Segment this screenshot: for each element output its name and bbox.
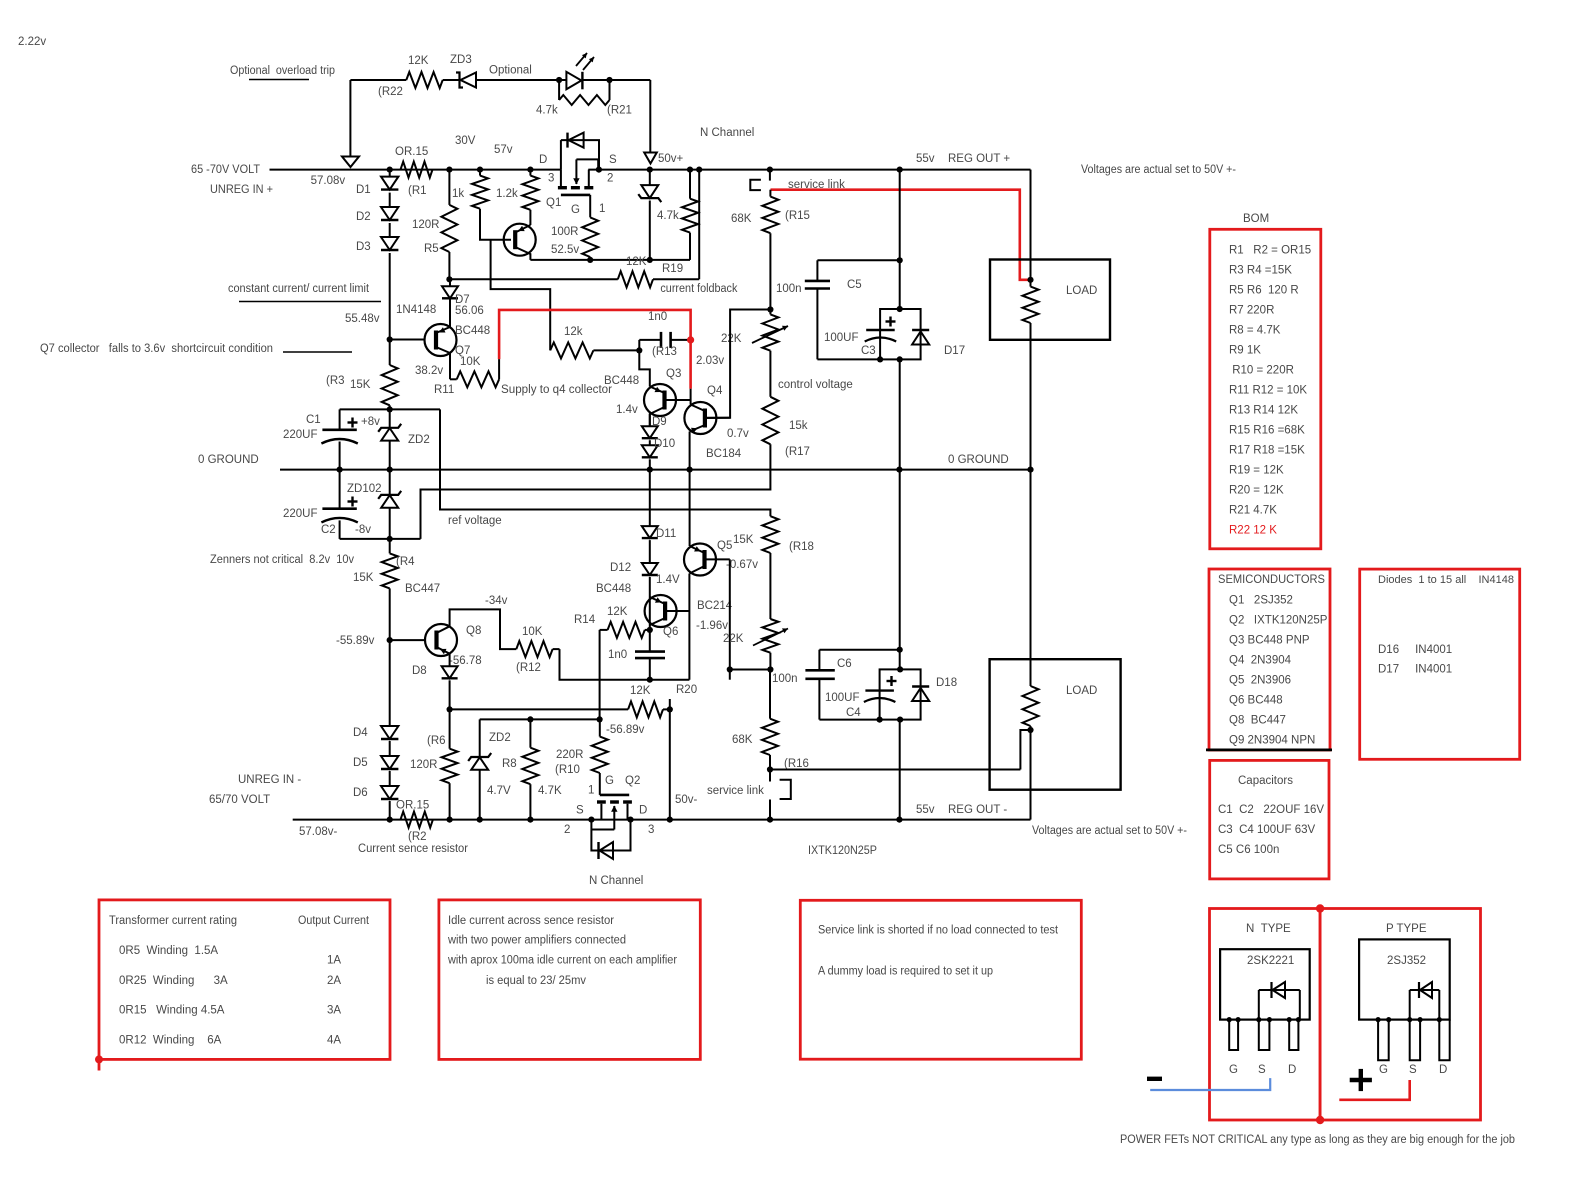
resistor R17 15k: [762, 397, 810, 458]
svg-text:12K: 12K: [607, 606, 628, 618]
resistor R11 10K: [450, 371, 499, 387]
wire rail source segment: [588, 169, 1030, 171]
svg-text:D6: D6: [353, 787, 368, 799]
resistor 1.2k: [496, 170, 538, 210]
svg-text:R20: R20: [676, 684, 697, 696]
svg-text:UNREG IN -: UNREG IN -: [238, 774, 301, 786]
capacitor C2 220UF: [283, 470, 358, 539]
svg-text:220UF: 220UF: [283, 508, 318, 520]
label UNREG IN +: [210, 184, 273, 196]
svg-text:R3 R4 =15K: R3 R4 =15K: [1229, 264, 1292, 276]
svg-text:Capacitors: Capacitors: [1238, 775, 1293, 787]
svg-text:C3: C3: [861, 345, 876, 357]
svg-text:15k: 15k: [789, 420, 808, 432]
wire Q8 collector to D8: [449, 654, 451, 667]
svg-text:R13 R14 12K: R13 R14 12K: [1229, 404, 1298, 416]
svg-text:constant current/ current limi: constant current/ current limit: [228, 283, 370, 295]
transistor Q2 IXTK120N25P: [591, 795, 631, 830]
svg-text:Diodes 1 to 15 all IN4148: Diodes 1 to 15 all IN4148: [1378, 574, 1514, 586]
resistor load upper: [1023, 170, 1039, 471]
load box upper: [990, 260, 1110, 340]
resistor 4.7k: [657, 170, 698, 260]
label -55.89v: [336, 635, 375, 647]
svg-text:(R21: (R21: [607, 105, 632, 117]
wire C5 bottom: [817, 356, 883, 362]
svg-text:(R22: (R22: [378, 86, 403, 98]
svg-text:Q8 BC447: Q8 BC447: [1229, 715, 1286, 727]
svg-text:Idle current across sence resi: Idle current across sence resistor: [448, 915, 614, 927]
svg-text:with two power amplifiers conn: with two power amplifiers connected: [447, 935, 626, 947]
svg-text:57.08v: 57.08v: [311, 175, 346, 187]
svg-text:Q4 2N3904: Q4 2N3904: [1229, 655, 1292, 667]
diode D2: [356, 207, 398, 223]
labels Q7: [415, 325, 490, 396]
svg-text:N TYPE: N TYPE: [1246, 923, 1291, 935]
svg-text:2.03v: 2.03v: [696, 355, 724, 367]
package 2SK2221: [1220, 949, 1310, 1019]
wire D8 to R20 line: [447, 680, 453, 712]
junction R4 Q8: [387, 637, 393, 643]
svg-text:Current sence resistor: Current sence resistor: [358, 843, 468, 855]
svg-text:Zenners not critical 8.2v 10: Zenners not critical 8.2v 10v: [210, 554, 354, 566]
svg-text:0.7v: 0.7v: [727, 428, 749, 440]
pins 2SK2221: [1227, 1017, 1301, 1076]
body diode of Q1: [561, 133, 599, 170]
svg-text:BC447: BC447: [405, 583, 440, 595]
wire overload trip top: [350, 79, 406, 81]
svg-text:R14: R14: [574, 614, 596, 626]
svg-text:R11 R12 = 10K: R11 R12 = 10K: [1229, 384, 1307, 396]
wire UNREG IN + rail left: [270, 169, 561, 171]
red junction dot R13: [687, 336, 694, 343]
P TYPE box: [1316, 904, 1481, 1124]
svg-text:0 GROUND: 0 GROUND: [198, 454, 259, 466]
svg-text:Output Current: Output Current: [298, 915, 370, 927]
svg-text:R21 4.7K: R21 4.7K: [1229, 504, 1277, 516]
svg-text:control voltage: control voltage: [778, 379, 853, 391]
wire pot to R17: [769, 351, 771, 397]
wire Q9 emitter bus: [530, 257, 690, 263]
wire R14 drop: [599, 630, 601, 720]
transistor Q1 2SJ352 pass FET: [558, 159, 598, 217]
potentiometer 22K upper: [721, 310, 788, 351]
svg-text:1: 1: [588, 785, 594, 797]
diode D5: [353, 741, 398, 769]
resistor load lower: [1023, 470, 1039, 819]
svg-text:2SJ352: 2SJ352: [1387, 955, 1426, 967]
wire red service link to load: [771, 190, 1034, 283]
wire C5 top: [817, 257, 902, 263]
svg-text:is equal to 23/ 25mv: is equal to 23/ 25mv: [486, 975, 586, 987]
resistor R10 220R: [555, 719, 608, 795]
resistor R18 15K: [733, 516, 814, 553]
transistor Q8 BC447: [390, 624, 457, 656]
svg-text:50v-: 50v-: [675, 794, 698, 806]
svg-text:+8v: +8v: [361, 416, 380, 428]
svg-text:100n: 100n: [772, 673, 798, 685]
svg-text:10K: 10K: [460, 356, 481, 368]
wire D6 to rail: [389, 801, 391, 820]
diode D10: [642, 438, 675, 457]
svg-text:Q3 BC448 PNP: Q3 BC448 PNP: [1229, 635, 1310, 647]
svg-text:ZD2: ZD2: [408, 434, 430, 446]
svg-text:Voltages are actual set to 50V: Voltages are actual set to 50V +-: [1032, 825, 1187, 837]
svg-text:D17: D17: [944, 345, 965, 357]
wire R20 to bottom rail: [669, 709, 671, 819]
capacitor C4 100UF with D18 box: [825, 666, 921, 722]
wire Q8 emitter to R12: [450, 609, 517, 649]
svg-text:4A: 4A: [327, 1034, 341, 1046]
svg-text:R7 220R: R7 220R: [1229, 304, 1274, 316]
svg-text:BOM: BOM: [1243, 213, 1269, 225]
svg-text:38.2v: 38.2v: [415, 365, 443, 377]
svg-text:BC214: BC214: [697, 600, 733, 612]
wire R16 node to load lower: [770, 769, 1020, 771]
svg-text:4.7K: 4.7K: [538, 785, 562, 797]
wire main positive column: [899, 170, 901, 470]
wire +8v node: [340, 406, 440, 428]
wire D12 to Q6: [650, 574, 680, 630]
label Zenners not critical: [210, 554, 354, 566]
svg-text:D: D: [1439, 1064, 1447, 1076]
plus lead marker: [1339, 1069, 1409, 1100]
svg-text:220UF: 220UF: [283, 429, 318, 441]
svg-text:(R18: (R18: [789, 541, 814, 553]
svg-text:2: 2: [607, 173, 613, 185]
svg-text:N Channel: N Channel: [589, 875, 643, 887]
label Supply to q4 collector: [501, 384, 612, 396]
label 0 GROUND right: [948, 454, 1009, 466]
BOM box: [1210, 229, 1321, 549]
capacitor 1n0 R13: [639, 311, 690, 358]
label current foldback: [660, 283, 737, 295]
wire D2-D3: [389, 223, 391, 237]
svg-text:BC448: BC448: [455, 325, 490, 337]
svg-text:Q4: Q4: [707, 385, 723, 397]
svg-text:Q2 IXTK120N25P: Q2 IXTK120N25P: [1229, 615, 1328, 627]
minus lead marker: [1147, 1078, 1270, 1090]
svg-text:(R2: (R2: [408, 831, 427, 843]
svg-text:(R17: (R17: [785, 446, 810, 458]
svg-text:BC448: BC448: [596, 583, 631, 595]
transistor Q7 BC448: [387, 300, 457, 380]
label REG OUT +: [948, 153, 1010, 165]
svg-text:C2: C2: [321, 524, 336, 536]
label N Channel top: [700, 127, 754, 139]
wire 0 GROUND rail: [280, 467, 1034, 473]
wire D1-D2: [389, 193, 391, 207]
diode D8: [412, 665, 458, 678]
svg-text:15K: 15K: [733, 534, 754, 546]
svg-text:D2: D2: [356, 211, 371, 223]
svg-text:57.08v-: 57.08v-: [299, 826, 338, 838]
arrow marker into UNREG rail: [342, 157, 359, 168]
svg-text:2: 2: [564, 824, 570, 836]
svg-text:S: S: [1409, 1064, 1417, 1076]
svg-text:D4: D4: [353, 727, 368, 739]
diode D11: [642, 526, 676, 540]
svg-text:50v+: 50v+: [658, 153, 684, 165]
resistor R12 10K: [516, 626, 560, 674]
svg-text:C3 C4 100UF 63V: C3 C4 100UF 63V: [1218, 824, 1315, 836]
transistor Q3 BC448: [644, 384, 691, 426]
svg-text:4.7k: 4.7k: [657, 210, 679, 222]
svg-text:OR.15: OR.15: [395, 146, 428, 158]
svg-text:1.4V: 1.4V: [656, 574, 680, 586]
zener ZD2: [378, 409, 430, 469]
svg-text:Q6 BC448: Q6 BC448: [1229, 695, 1283, 707]
svg-text:100UF: 100UF: [825, 692, 860, 704]
capacitor C6 100n: [772, 650, 852, 720]
svg-text:Optional overload trip: Optional overload trip: [230, 65, 335, 77]
resistor R3 15K: [326, 340, 398, 410]
resistor R4 15K: [353, 539, 415, 640]
svg-text:D9: D9: [652, 416, 667, 428]
svg-text:3: 3: [548, 173, 554, 185]
svg-text:10K: 10K: [522, 626, 543, 638]
svg-text:(R16: (R16: [784, 758, 809, 770]
pin labels Q2: [564, 775, 654, 836]
svg-text:Q1 2SJ352: Q1 2SJ352: [1229, 595, 1293, 607]
diode D18: [912, 677, 957, 701]
svg-text:C5 C6 100n: C5 C6 100n: [1218, 844, 1279, 856]
label 55v top: [916, 153, 935, 165]
svg-text:R8 = 4.7K: R8 = 4.7K: [1229, 324, 1281, 336]
capacitor C5 100n: [776, 260, 862, 359]
svg-text:D3: D3: [356, 241, 371, 253]
SEMICONDUCTORS box: [1206, 569, 1332, 750]
pins 2SJ352: [1376, 1017, 1450, 1076]
wire main negative column: [899, 470, 901, 820]
wire Q4 collector: [690, 389, 692, 405]
label Voltages bottom: [1032, 825, 1187, 837]
svg-text:REG OUT +: REG OUT +: [948, 153, 1010, 165]
svg-text:1N4148: 1N4148: [396, 304, 436, 316]
wire ref supply to R18: [440, 409, 770, 516]
labels Q8: [405, 583, 508, 667]
resistor R14 12K: [574, 606, 653, 638]
svg-text:(R3: (R3: [326, 375, 345, 387]
label 65 -70V VOLT: [191, 164, 260, 176]
resistor R20 12K: [450, 684, 698, 717]
Service link note box: [800, 900, 1081, 1059]
label 1N4148: [396, 304, 436, 316]
svg-text:57v: 57v: [494, 144, 513, 156]
svg-text:52.5v: 52.5v: [551, 244, 579, 256]
svg-text:120R: 120R: [412, 219, 440, 231]
svg-text:BC184: BC184: [706, 448, 742, 460]
svg-text:12K: 12K: [626, 256, 647, 268]
svg-text:D12: D12: [610, 562, 631, 574]
wire UNREG IN - rail: [293, 817, 1031, 823]
svg-text:(R4: (R4: [396, 556, 415, 568]
svg-text:4.7k: 4.7k: [536, 105, 558, 117]
svg-text:1.2k: 1.2k: [496, 188, 518, 200]
svg-text:Q5: Q5: [717, 540, 732, 552]
label 57v: [494, 144, 513, 156]
svg-text:-0.67v: -0.67v: [726, 559, 758, 571]
label 55.48v: [345, 313, 380, 325]
Capacitors box: [1210, 760, 1329, 879]
label ref voltage: [448, 515, 502, 527]
wire right drop to 50v+ marker: [649, 80, 651, 152]
svg-text:LOAD: LOAD: [1066, 285, 1097, 297]
svg-text:R11: R11: [434, 384, 454, 396]
resistor R2 OR.15: [396, 800, 433, 844]
svg-text:100n: 100n: [776, 283, 802, 295]
wire 1k to Q9 base: [480, 209, 511, 240]
svg-text:BC448: BC448: [604, 375, 639, 387]
svg-text:65/70 VOLT: 65/70 VOLT: [209, 794, 270, 806]
labels Q3: [604, 355, 724, 416]
svg-text:Q9 2N3904 NPN: Q9 2N3904 NPN: [1229, 735, 1315, 747]
body diode of Q2: [591, 820, 630, 859]
Idle current box: [439, 900, 700, 1060]
zener ZD3: [450, 54, 476, 88]
svg-text:OR.15: OR.15: [396, 800, 429, 812]
svg-text:Supply to q4 collector: Supply to q4 collector: [501, 384, 612, 396]
svg-text:4.7V: 4.7V: [487, 785, 511, 797]
label constant current/current limit: [228, 283, 381, 302]
diode D7: [442, 279, 484, 317]
labels Q6: [596, 583, 678, 638]
package 2SJ352: [1359, 939, 1450, 1019]
svg-text:3: 3: [648, 824, 654, 836]
diode D1: [356, 177, 398, 196]
wire D3 to Q7 base node: [389, 253, 391, 340]
svg-text:22K: 22K: [723, 633, 744, 645]
service link bottom: [675, 770, 791, 820]
wire D11-D12: [649, 540, 651, 563]
svg-text:D16 IN4001: D16 IN4001: [1378, 644, 1452, 656]
service link top: [750, 170, 845, 191]
svg-text:R8: R8: [502, 758, 517, 770]
svg-text:-1.96v: -1.96v: [696, 620, 728, 632]
wire Q5 base drop: [727, 559, 774, 679]
svg-text:0R25 Winding 3A: 0R25 Winding 3A: [119, 975, 228, 987]
pin labels Q1: [539, 154, 617, 216]
svg-text:0R12 Winding 6A: 0R12 Winding 6A: [119, 1034, 222, 1046]
svg-text:IXTK120N25P: IXTK120N25P: [808, 845, 877, 857]
resistor R6 120R: [410, 709, 458, 819]
arrow marker 50v+: [644, 153, 683, 166]
svg-text:22K: 22K: [721, 333, 742, 345]
svg-text:68K: 68K: [731, 213, 752, 225]
svg-text:D17 IN4001: D17 IN4001: [1378, 664, 1452, 676]
wire load lower tap: [1020, 730, 1030, 770]
svg-text:100R: 100R: [551, 226, 579, 238]
svg-text:P TYPE: P TYPE: [1386, 923, 1427, 935]
resistor R16 68K: [732, 670, 809, 773]
labels bottom rail left: [209, 774, 468, 855]
label control voltage: [778, 379, 853, 391]
wire Q5 collector column: [688, 574, 690, 680]
wire -8v node: [340, 524, 421, 542]
svg-text:55v: 55v: [916, 804, 935, 816]
resistor R22 12K: [378, 55, 443, 98]
wire D10 to ground: [649, 459, 651, 469]
svg-text:Optional: Optional: [489, 65, 532, 77]
label 55v bottom: [916, 804, 935, 816]
svg-text:D11: D11: [656, 528, 676, 540]
diode D4: [353, 640, 398, 739]
svg-text:12k: 12k: [564, 326, 583, 338]
diode D3: [356, 237, 398, 253]
resistor 100R: [551, 217, 598, 260]
svg-text:(R13: (R13: [652, 346, 677, 358]
svg-text:S: S: [576, 805, 584, 817]
svg-text:1n0: 1n0: [608, 649, 627, 661]
N TYPE box: [1210, 909, 1321, 1121]
wire ground to D11: [649, 470, 651, 526]
svg-text:-55.89v: -55.89v: [336, 635, 375, 647]
svg-text:65 -70V VOLT: 65 -70V VOLT: [191, 164, 260, 176]
svg-text:68K: 68K: [732, 734, 753, 746]
svg-text:120R: 120R: [410, 759, 438, 771]
svg-text:1: 1: [599, 203, 605, 215]
wire -56.89v bus: [480, 716, 645, 736]
label 0 GROUND left: [198, 454, 259, 466]
svg-text:R1 R2 = OR15: R1 R2 = OR15: [1229, 244, 1311, 256]
svg-text:(R12: (R12: [516, 662, 541, 674]
label Optional overload trip: [230, 65, 335, 80]
svg-text:1n0: 1n0: [648, 311, 667, 323]
svg-text:Transformer current rating: Transformer current rating: [109, 915, 237, 927]
svg-text:R5: R5: [424, 243, 439, 255]
svg-text:Q6: Q6: [663, 626, 678, 638]
zener diode at 50v+ node: [638, 170, 661, 260]
svg-text:G: G: [1229, 1064, 1238, 1076]
svg-text:R20 = 12K: R20 = 12K: [1229, 484, 1284, 496]
wire C6 bottom: [819, 717, 882, 723]
svg-text:POWER FETs NOT CRITICAL any ty: POWER FETs NOT CRITICAL any type as long…: [1120, 1134, 1515, 1146]
svg-text:D: D: [639, 805, 647, 817]
wire ZD3 to LED: [476, 77, 566, 83]
resistor 12k to Q3: [550, 326, 642, 358]
svg-text:-56.78: -56.78: [449, 655, 482, 667]
resistor R8 4.7K: [502, 719, 562, 819]
svg-text:G: G: [1379, 1064, 1388, 1076]
wire -8v to R17: [421, 444, 771, 539]
svg-text:S: S: [1258, 1064, 1266, 1076]
label BOM: [1243, 213, 1269, 225]
capacitor C1 220UF: [283, 409, 358, 469]
svg-text:A dummy load is required to se: A dummy load is required to set it up: [818, 966, 993, 978]
svg-text:R17 R18 =15K: R17 R18 =15K: [1229, 444, 1305, 456]
svg-text:Q8: Q8: [466, 625, 481, 637]
svg-text:D5: D5: [353, 757, 368, 769]
wire red bootstrap net: [499, 310, 690, 389]
wire Q9 supply tap: [491, 240, 551, 351]
diode D6: [353, 771, 398, 799]
svg-text:100UF: 100UF: [824, 332, 859, 344]
svg-text:D8: D8: [412, 665, 427, 677]
svg-text:Voltages are actual set to 50V: Voltages are actual set to 50V +-: [1081, 164, 1236, 176]
wire rail to D1: [389, 170, 391, 177]
svg-text:15K: 15K: [353, 572, 374, 584]
svg-text:D: D: [539, 154, 547, 166]
label 2.22v: [18, 36, 46, 48]
svg-text:Q1: Q1: [546, 197, 561, 209]
svg-text:55.48v: 55.48v: [345, 313, 380, 325]
svg-text:with aprox 100ma idle current: with aprox 100ma idle current on each am…: [447, 955, 677, 967]
zener ZD2 lower 4.7V: [468, 719, 511, 819]
svg-text:30V: 30V: [455, 135, 476, 147]
svg-text:D10: D10: [654, 438, 675, 450]
svg-text:56.06: 56.06: [455, 305, 484, 317]
svg-text:0R15 Winding 4.5A: 0R15 Winding 4.5A: [119, 1005, 225, 1017]
labels Q5: [696, 540, 758, 632]
